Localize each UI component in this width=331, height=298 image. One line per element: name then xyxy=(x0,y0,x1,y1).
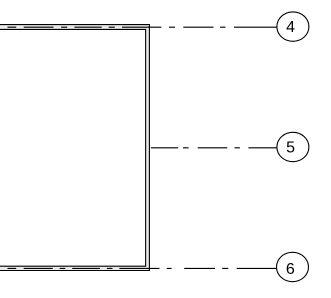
svg-text:6: 6 xyxy=(286,261,295,278)
grid bubble 5 xyxy=(277,132,309,161)
grid line 4 (dash-dot centerline) xyxy=(8,26,278,28)
grid line 5 (dash-dot centerline) xyxy=(151,147,277,149)
svg-text:5: 5 xyxy=(286,140,295,157)
wall inner face line xyxy=(0,29,146,266)
grid line 6 (dash-dot centerline) xyxy=(8,267,278,269)
wall fill (U-shaped band, left edge clipped) xyxy=(0,25,149,271)
wall outer face line xyxy=(0,25,149,271)
grid bubble 4 xyxy=(277,12,309,41)
grid bubble 6 xyxy=(277,252,309,281)
svg-text:4: 4 xyxy=(286,19,295,36)
